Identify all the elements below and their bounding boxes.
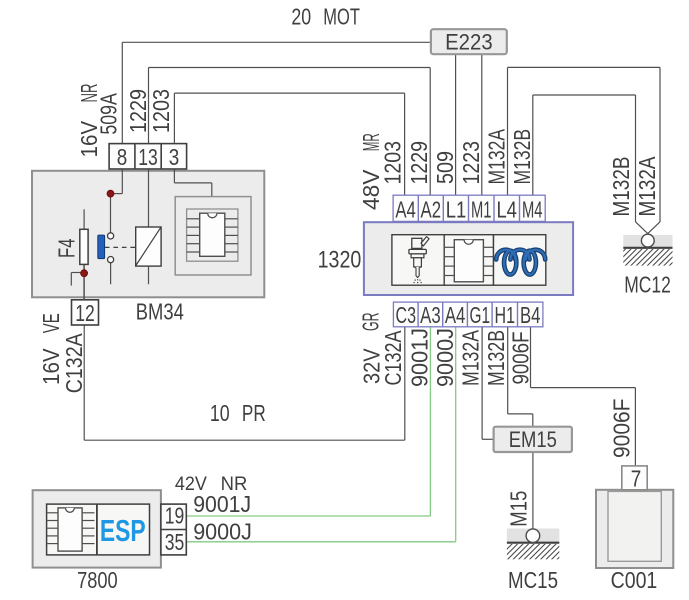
svg-text:L1: L1: [446, 197, 467, 223]
svg-text:9000J: 9000J: [432, 328, 458, 387]
svg-text:G1: G1: [470, 302, 491, 328]
svg-text:VE: VE: [38, 313, 64, 333]
svg-text:M132A: M132A: [458, 329, 484, 386]
svg-text:12: 12: [75, 300, 95, 326]
svg-text:1223: 1223: [458, 141, 484, 185]
svg-text:MOT: MOT: [323, 3, 360, 29]
svg-text:BM34: BM34: [136, 299, 184, 325]
svg-text:M132B: M132B: [509, 129, 535, 185]
svg-text:GR: GR: [358, 313, 384, 332]
svg-text:1203: 1203: [148, 89, 174, 133]
svg-text:1320: 1320: [318, 247, 362, 274]
svg-text:M132A: M132A: [634, 156, 660, 217]
svg-text:C001: C001: [611, 567, 658, 593]
svg-text:H1: H1: [495, 302, 516, 328]
svg-text:M4: M4: [522, 197, 543, 223]
svg-text:M132B: M132B: [608, 157, 634, 217]
svg-text:C132A: C132A: [61, 333, 87, 394]
svg-text:ESP: ESP: [100, 513, 146, 548]
svg-text:PR: PR: [242, 400, 266, 426]
svg-text:L4: L4: [496, 197, 517, 223]
svg-text:7: 7: [631, 466, 642, 492]
svg-text:B4: B4: [520, 302, 541, 328]
svg-text:13: 13: [138, 144, 158, 170]
svg-text:A3: A3: [420, 302, 441, 328]
svg-text:EM15: EM15: [509, 427, 557, 452]
svg-text:MC15: MC15: [508, 567, 558, 593]
svg-text:9000J: 9000J: [193, 518, 252, 544]
svg-text:C132A: C132A: [380, 330, 406, 386]
svg-text:MC12: MC12: [624, 272, 671, 298]
svg-text:9006F: 9006F: [508, 332, 534, 385]
svg-text:E223: E223: [445, 29, 493, 54]
svg-text:A2: A2: [421, 197, 442, 223]
svg-text:M132B: M132B: [483, 330, 509, 386]
svg-text:1229: 1229: [406, 141, 432, 185]
svg-text:M15: M15: [506, 491, 532, 527]
svg-text:C3: C3: [396, 302, 417, 328]
svg-text:35: 35: [165, 529, 185, 555]
svg-text:M1: M1: [471, 197, 492, 223]
svg-text:9001J: 9001J: [407, 328, 433, 387]
svg-text:10: 10: [210, 400, 230, 426]
svg-text:A4: A4: [395, 197, 416, 223]
svg-text:8: 8: [117, 144, 128, 170]
svg-text:3: 3: [169, 144, 180, 170]
svg-text:9006F: 9006F: [609, 399, 635, 459]
svg-text:1203: 1203: [380, 141, 406, 185]
svg-text:A4: A4: [445, 302, 466, 328]
svg-text:M132A: M132A: [484, 128, 510, 184]
svg-text:F4: F4: [54, 238, 80, 258]
svg-text:509: 509: [432, 151, 458, 184]
svg-text:9001J: 9001J: [193, 491, 251, 517]
svg-text:509A: 509A: [96, 93, 122, 135]
svg-text:20: 20: [291, 3, 311, 29]
svg-text:7800: 7800: [77, 567, 118, 593]
svg-text:19: 19: [165, 502, 185, 528]
